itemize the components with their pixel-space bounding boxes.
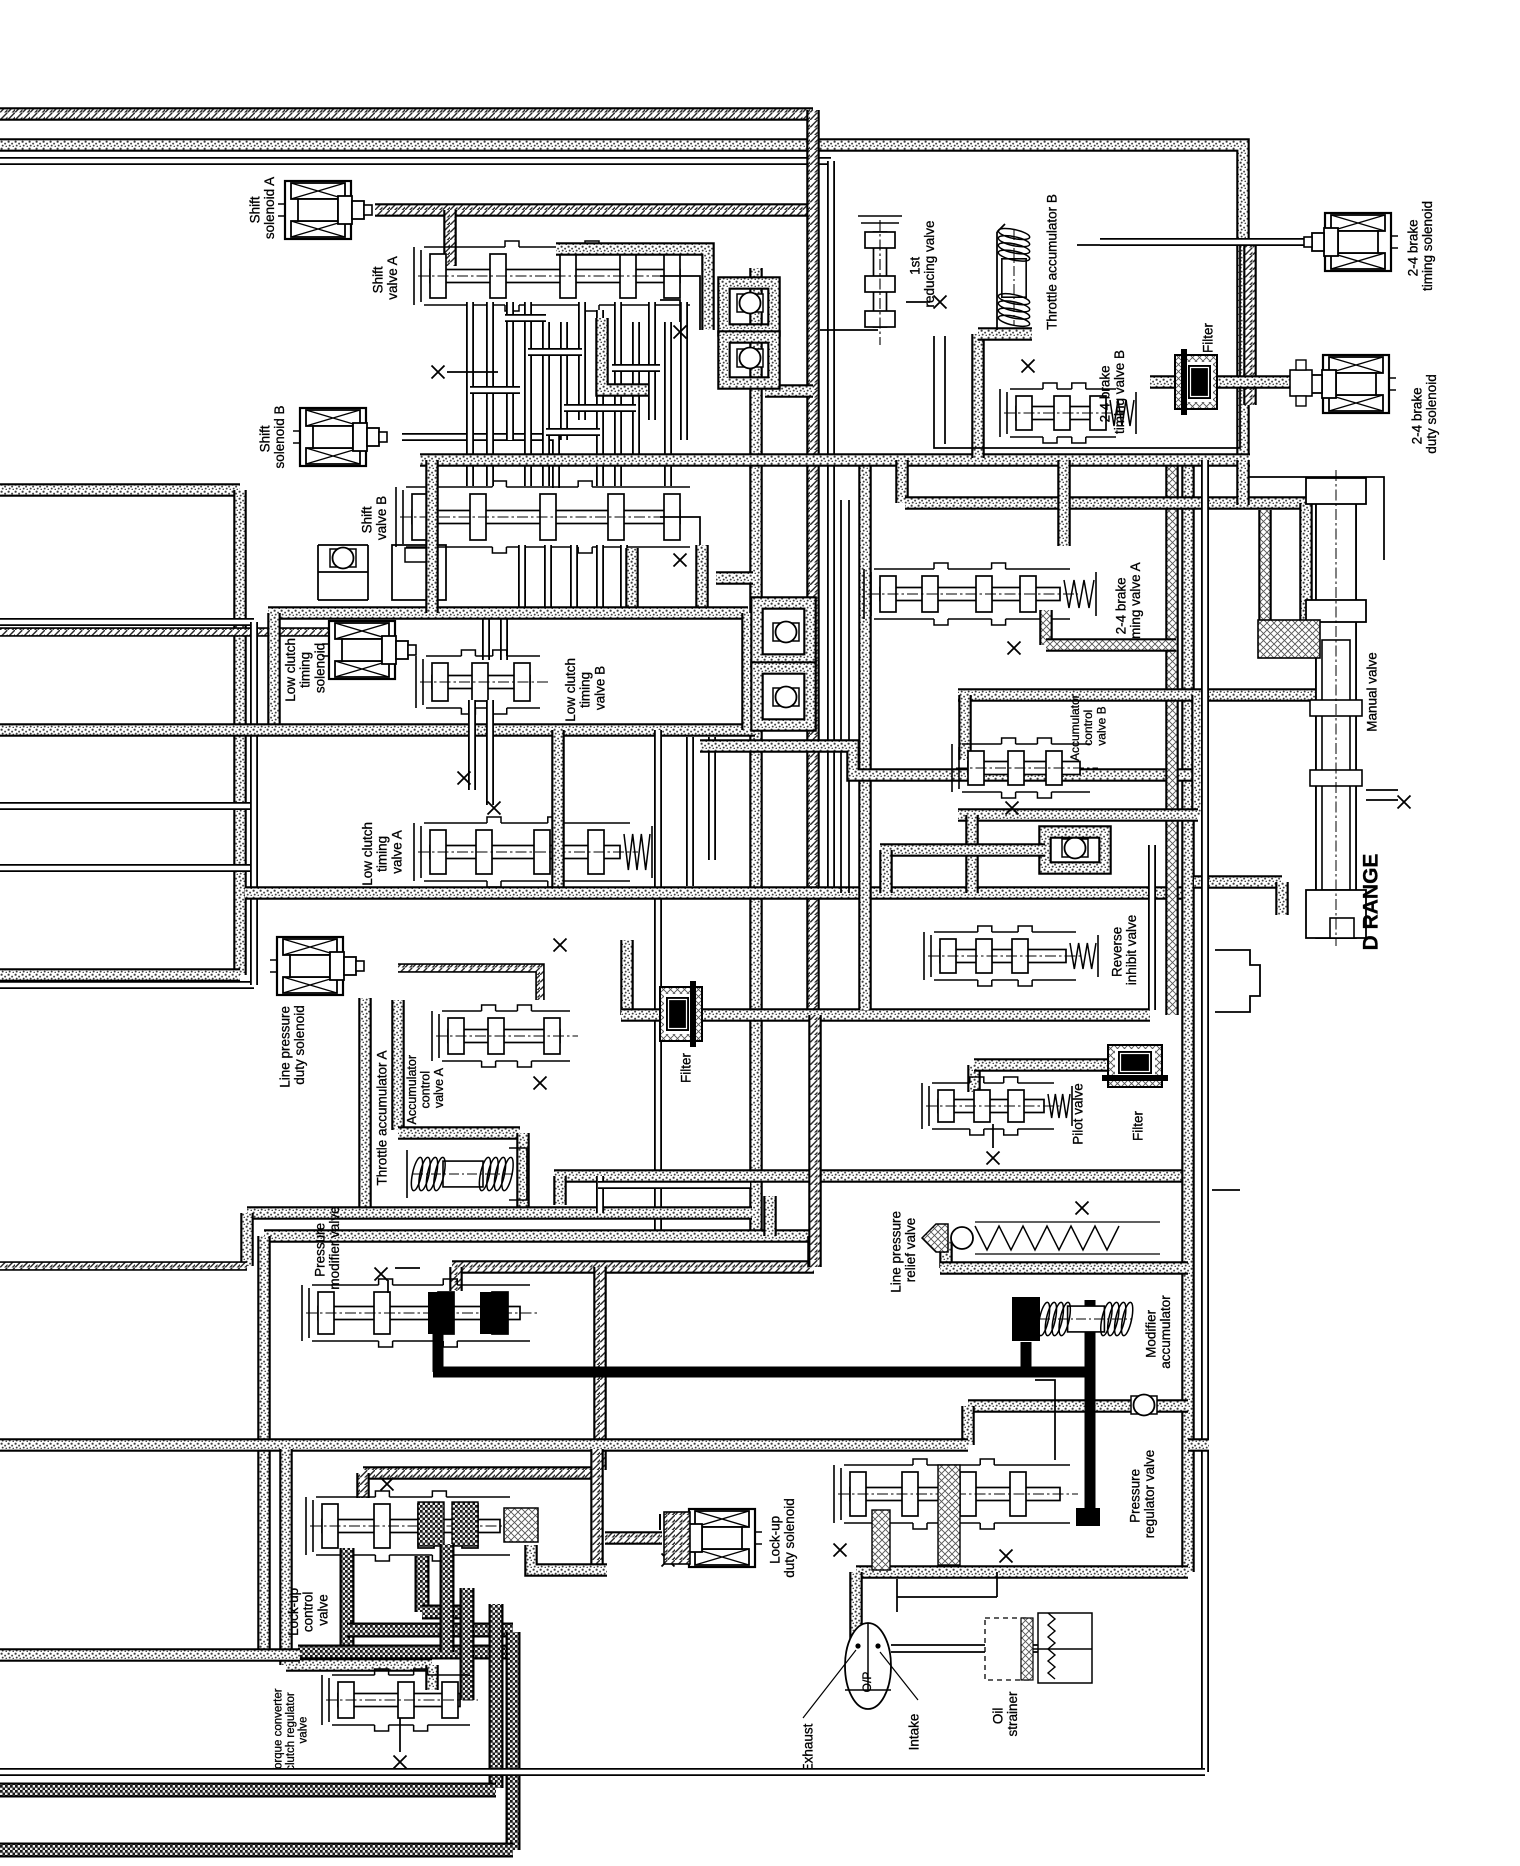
wire: hatch stub to modifier valve [449, 1267, 463, 1291]
svg-text:2-4 brake timing valve B: 2-4 brake timing valve B [1097, 350, 1127, 434]
wire: hatch run y1267 [452, 1260, 814, 1274]
wire: maze v3 [506, 302, 514, 440]
valve: Accumulator control valve A [432, 1005, 578, 1067]
valve: Manual valve [1306, 470, 1366, 946]
valve: Accumulator control valve B [952, 738, 1098, 798]
filter: right middle [1102, 1045, 1168, 1087]
wire: thin rect line y622 [0, 618, 254, 626]
x mark maze left [432, 366, 445, 379]
wire: thin reg line [1035, 1380, 1055, 1460]
wire: hatch vertical x600 [593, 1267, 607, 1470]
wire: duty solenoid output hatched [398, 968, 540, 1000]
wire: maze v4 [524, 302, 532, 486]
wire: corner down left y1176 [553, 1176, 567, 1205]
x mark modifier [375, 1268, 388, 1281]
x mark pilot [987, 1152, 1000, 1165]
valve: Shift valve A [414, 241, 698, 311]
valve: Pressure regulator valve [834, 1459, 1078, 1529]
check ball left of shift valve B [330, 548, 356, 569]
wire: stipple vertical x558 [551, 730, 565, 893]
solenoid: Shift solenoid A [278, 181, 372, 239]
frame: ball check frame 1 [724, 283, 774, 330]
wire: maze v13 [680, 302, 688, 440]
wire: hatch link x814 [807, 1236, 821, 1267]
wire: thin rect line y806 [0, 802, 254, 810]
wire: dark v3 [440, 1544, 455, 1652]
wire: valve A right line [660, 276, 700, 330]
x mark 1st reducing [934, 296, 947, 309]
solenoid: Lock-up duty solenoid [668, 1509, 762, 1567]
wire: maze h0 [505, 314, 546, 322]
x mark relief [1076, 1202, 1089, 1215]
wire: lcv down2 [486, 700, 494, 805]
wire: throttle acc B frame top [978, 327, 1032, 341]
wire: reg box bottom [856, 1565, 1188, 1579]
wire: hatch vertical x597 [590, 1449, 604, 1570]
wire: stub right of case [1212, 1189, 1240, 1191]
wire: dark v5 [489, 1604, 504, 1788]
wire: below valve B 2 [544, 545, 552, 608]
svg-text:2-4 brake duty solenoid: 2-4 brake duty solenoid [1409, 374, 1439, 454]
wire: D range drop [1275, 882, 1289, 915]
crosshatch chamber manual valve inlet [1258, 620, 1320, 658]
svg-text:Reverse inhibit valve: Reverse inhibit valve [1109, 915, 1139, 986]
valve: Pilot valve [922, 1077, 1072, 1135]
wire: ball frame link [880, 843, 1045, 857]
wire: maze h2 [528, 348, 582, 356]
spring: Throttle accumulator B [997, 226, 1030, 328]
wire: stub box to case [1188, 1438, 1209, 1452]
frame: ball check mid 1 [757, 603, 810, 660]
wire: stipple U under cap [531, 1545, 607, 1570]
wire: low clutch box bottom y730 [0, 723, 755, 737]
wire: pilot riser [967, 1065, 981, 1092]
check ball 2 [737, 348, 763, 369]
svg-text:Line pressure duty solenoid: Line pressure duty solenoid [277, 1002, 307, 1088]
wire: stipple drop to valve A [1057, 460, 1071, 546]
wire: dark v1 [340, 1548, 355, 1646]
wire: long stipple vertical x264 [257, 1236, 271, 1660]
wire: main hatched vertical x813 [806, 110, 820, 1015]
wire: thin rect right edge [250, 622, 258, 985]
frame: check box 1 [318, 545, 368, 600]
valve: Torque converter clutch regulator valve [322, 1669, 478, 1731]
valve: Reverse inhibit valve [924, 926, 1098, 986]
x mark acc B [1006, 802, 1019, 815]
wire: thin vertical x658 [654, 730, 662, 1240]
wire: reg box top [968, 1399, 1188, 1413]
wire: below valve B 3 [570, 545, 578, 608]
wire: x lead reducing [906, 301, 930, 303]
wire: stipple run y1015 through filter [621, 1008, 1150, 1022]
black circuit: pressure modifier loop [433, 1334, 444, 1372]
wire: left stipple vertical x240 [233, 490, 247, 975]
wire: maze stipple branch [602, 318, 648, 390]
wire: solenoid B to shift valve B [402, 437, 556, 488]
wire: thin nest y1185 [598, 1181, 750, 1189]
svg-text:2-4 brake timing valve A: 2-4 brake timing valve A [1113, 562, 1143, 645]
spring: Modifier accumulator [1036, 1301, 1135, 1336]
wire: thin box above manual valve [1238, 477, 1384, 560]
wire: into low clutch box 2 [500, 613, 508, 660]
frame: ball check frame 2 [724, 337, 774, 383]
x mark low clutch 1 [458, 772, 471, 785]
wire: thin rect line y985 [0, 981, 254, 989]
wire: thin hatch line y632 [0, 627, 330, 637]
wire: maze v1 [466, 302, 474, 486]
wire: relief frame left [939, 1240, 953, 1268]
wire: lcv down1 [468, 700, 476, 790]
wire: throttle accumulator A channel [358, 998, 372, 1208]
wire: stipple vertical x865 [858, 460, 872, 1010]
wire: drop to tcc valve [425, 1665, 439, 1690]
wire: dark v2 [415, 1556, 430, 1612]
wire: acc B drop to main run [965, 815, 979, 893]
svg-text:Manual valve: Manual valve [1365, 652, 1380, 732]
wire: stipple vertical x286 [279, 1449, 293, 1665]
wire: thin v x690 [686, 737, 694, 886]
wire: thin v x841 [840, 500, 842, 893]
solenoid: 2-4 brake timing solenoid [1304, 213, 1398, 271]
x mark shift valve B right [674, 554, 687, 567]
valve: 2-4 brake timing valve B [1000, 383, 1136, 443]
wire: main stipple run y893 [245, 886, 1185, 900]
wire: pilot to filter [974, 1058, 1115, 1072]
wire: stipple drop valve B right [695, 545, 709, 613]
wire: hatch drop to lockup valve [356, 1473, 370, 1498]
wire: reducing valve link [820, 329, 878, 331]
wire: stipple run y503 [905, 496, 1306, 510]
wire: short link y578 [716, 571, 753, 585]
wire: link to lockup duty solenoid [605, 1531, 662, 1545]
svg-text:Filter: Filter [679, 1052, 694, 1083]
crosshatch segments regulator [938, 1465, 960, 1565]
wire: acc control frame left [391, 1000, 405, 1130]
wire: left stipple channel y490 [0, 483, 240, 497]
wire: corner x247 [240, 1213, 254, 1266]
wire: valve B right line [660, 517, 700, 548]
filter: top right [1175, 349, 1217, 415]
capacitor-like marks [660, 1514, 668, 1530]
dark lands lockup [418, 1502, 444, 1546]
x mark 2-4 A [1008, 642, 1021, 655]
svg-text:D RANGE: D RANGE [1359, 854, 1382, 951]
x mark regulator left [834, 1544, 847, 1557]
wire: stipple run y1176 [554, 1169, 1188, 1183]
x mark 2-4 valve B [1022, 360, 1035, 373]
wire: maze h1 [470, 386, 520, 394]
valve: 2-4 brake timing valve A [864, 563, 1096, 625]
wire: black vertical over channel [1085, 1380, 1096, 1520]
wire: dark h2 upper [347, 1623, 513, 1638]
wire: x lead [447, 371, 498, 373]
wire: pump to valve lines [897, 1572, 997, 1612]
wire: link x770 [763, 1196, 777, 1236]
wire: hatch vertical x815 lower [808, 1015, 822, 1267]
x mark near lockup duty [662, 1554, 675, 1567]
wire: long stipple vertical x756 [749, 268, 763, 1236]
x mark low clutch 2 [488, 802, 501, 815]
wire: tcc x stub [399, 1718, 401, 1752]
wire: thin v x849 [848, 500, 850, 893]
solenoid: Shift solenoid B [293, 408, 387, 466]
wire: riser to filter run [620, 940, 634, 1015]
valve: Pressure modifier valve [302, 1279, 538, 1347]
wire: dark h2 [422, 1605, 460, 1620]
valve: Low clutch timing valve A [414, 817, 652, 887]
wire: maze h3 [546, 428, 600, 436]
wire: below valve B 1 [518, 545, 526, 608]
wire: crosshatch vertical x1172 [1165, 460, 1179, 1015]
wire: low clutch box top [268, 606, 748, 620]
wire: throttle acc B frame left [971, 334, 985, 458]
x mark regulator right [1000, 1550, 1013, 1563]
wire: main stipple run y460 [420, 453, 1250, 467]
wire: dark v6 [506, 1632, 521, 1850]
wire: case bottom edge [0, 1768, 1205, 1776]
wire: pilot x stub [992, 1124, 994, 1148]
wire: acc control frame bottom [398, 1126, 520, 1140]
wire: bottom channel to tcc valve [286, 1658, 432, 1672]
valve: Low clutch timing valve B [416, 650, 548, 714]
wire: maze v2 [486, 302, 494, 486]
wire: stipple run y1236 [264, 1229, 814, 1243]
wire: reg box riser [961, 1406, 975, 1445]
wire: acc B box top feeds manual valve [958, 688, 1316, 702]
wire: maze h5 [612, 364, 660, 372]
wire: hatch y1473 [363, 1466, 600, 1480]
wire: pump to strainer [891, 1645, 1038, 1652]
wire: thin pair x600 upper [596, 1176, 604, 1213]
wire: filter to duty solenoid [1150, 375, 1290, 389]
wire: maze v6 [560, 322, 568, 440]
wire: thin double vertical x831 [827, 161, 835, 893]
wire: hatch vertical x1250 [1243, 245, 1257, 405]
wire: drop to manual valve [1299, 503, 1313, 624]
wire: top hatched line pressure channel [0, 107, 813, 121]
wire: second stippled channel to 2-4 brake box [0, 145, 1243, 460]
svg-text:Filter: Filter [1201, 322, 1216, 353]
pump O/P [845, 1623, 891, 1709]
wire: thin frame below reverse inhibit [1148, 845, 1156, 1010]
svg-text:Throttle accumulator B: Throttle accumulator B [1045, 194, 1060, 330]
wire: stipple drop to low clutch box [425, 460, 439, 613]
wire: inner thin box second line [944, 336, 946, 444]
wire: acc B box bottom [958, 808, 1198, 822]
wire: low clutch box right [741, 613, 755, 730]
check ball y1405 [1131, 1395, 1157, 1416]
x mark manual valve [1398, 796, 1411, 809]
svg-text:Pilot valve: Pilot valve [1071, 1083, 1086, 1145]
solenoid: 2-4 brake duty solenoid [1302, 355, 1396, 413]
svg-text:Filter: Filter [1131, 1110, 1146, 1141]
black lands pressure modifier [428, 1292, 454, 1334]
wire: drop to shift valve A [443, 210, 457, 266]
wire: manual valve x stub [1366, 790, 1398, 800]
x mark shift valve A right [674, 326, 687, 339]
check ball 1 [737, 293, 763, 314]
wire: maze v8 [596, 310, 604, 486]
wire: long stipple vertical x1188 [1181, 460, 1195, 1572]
filter: middle left [660, 981, 702, 1047]
wire: left stipple channel y975 [0, 968, 240, 982]
oil strainer [985, 1618, 1030, 1680]
wire: hatch below valve A [1039, 610, 1053, 645]
wire: maze v9 [614, 302, 622, 486]
valve: 1st reducing valve [858, 216, 902, 345]
wire: dark v4 [460, 1588, 475, 1700]
wire: inner thin box 2-4 brake [934, 245, 1240, 448]
wire: shift solenoid A output channel [375, 203, 813, 217]
wire: dark h main [298, 1645, 511, 1660]
wire: thin hatch y1266 [0, 1261, 247, 1271]
frame: check box 2 [392, 545, 446, 600]
wire: acc B spring bracket [997, 224, 1005, 330]
wire: stipple drop below valve B [625, 548, 639, 608]
solenoid: Low clutch timing solenoid [322, 621, 416, 679]
wire: D range feed [1194, 875, 1282, 889]
check ball mid 1 [773, 622, 799, 643]
svg-text:Throttle accumulator A: Throttle accumulator A [375, 1050, 390, 1185]
x mark above acc A [554, 939, 567, 952]
wire: ball frame drop [879, 850, 893, 893]
wire: thin double pipe top [0, 157, 831, 165]
wire: dark bottom run 2 [0, 1843, 513, 1858]
wire: modifier x stub [388, 1268, 420, 1293]
wire: stub below box [1236, 460, 1250, 505]
wire: acc frame drop [516, 1133, 530, 1213]
wire: dark bottom run 1 [0, 1783, 496, 1798]
svg-text:Exhaust: Exhaust [801, 1723, 816, 1772]
frame: ball check mid 2 [757, 668, 810, 725]
wire: into low clutch box 1 [482, 613, 490, 660]
wire: maze v5 [542, 322, 550, 486]
wire: link y460-y503 [895, 460, 909, 503]
x mark lockup [381, 1478, 394, 1491]
frame: ball frame [1045, 832, 1105, 868]
wire: thin rect line y868 [0, 864, 254, 872]
wire: maze v10 [632, 322, 640, 460]
wire: case right edge [1201, 460, 1209, 1772]
wire: acc B box right [1191, 695, 1205, 815]
wire: light channel into dark area [0, 1648, 300, 1662]
wire: crosshatch run y645 [1046, 638, 1176, 652]
valve: Shift valve B [396, 481, 698, 553]
wire: relief frame bottom [940, 1261, 1188, 1275]
wire: thin v x712 [708, 737, 716, 860]
wire: maze v12 [664, 322, 672, 486]
wire: valve A right line2 [660, 300, 680, 322]
wire: crosshatch vertical to blob [1258, 510, 1272, 620]
x mark tcc [394, 1756, 407, 1769]
valve: Lock-up control valve [306, 1491, 518, 1561]
wire: stipple jog run y746-775 [700, 746, 1198, 775]
wire: timing solenoid line [1100, 238, 1306, 246]
wire: reg box left down [849, 1572, 863, 1642]
wire: stipple link to x813 [765, 384, 813, 398]
svg-text:Line pressure relief valve: Line pressure relief valve [888, 1207, 918, 1293]
wire: below valve B 4 [596, 545, 604, 608]
svg-text:Intake: Intake [907, 1714, 922, 1751]
wire: acc B box left [958, 695, 972, 760]
wire: stipple run y1213 [247, 1206, 752, 1220]
check ball mid 2 [773, 687, 799, 708]
svg-text:O/P: O/P [860, 1672, 874, 1693]
wire: maze v7 [578, 302, 586, 420]
x mark acc control A [534, 1077, 547, 1090]
wire: long run y1445 [0, 1438, 968, 1452]
wire: maze v11 [648, 302, 656, 420]
port stub right of case [1215, 950, 1260, 1012]
spring: Throttle accumulator A [409, 1156, 515, 1191]
wire: below valve B 5 [620, 545, 628, 608]
solenoid: Line pressure duty solenoid [270, 937, 364, 995]
wire: maze h4 [564, 404, 636, 412]
wire: low clutch box left [267, 613, 281, 730]
wire: stipple over shift valve A [556, 249, 708, 330]
svg-text:Shift valve A: Shift valve A [370, 256, 400, 300]
check ball reverse inhibit [1062, 838, 1088, 859]
valve: Line pressure relief valve [922, 1222, 1160, 1254]
